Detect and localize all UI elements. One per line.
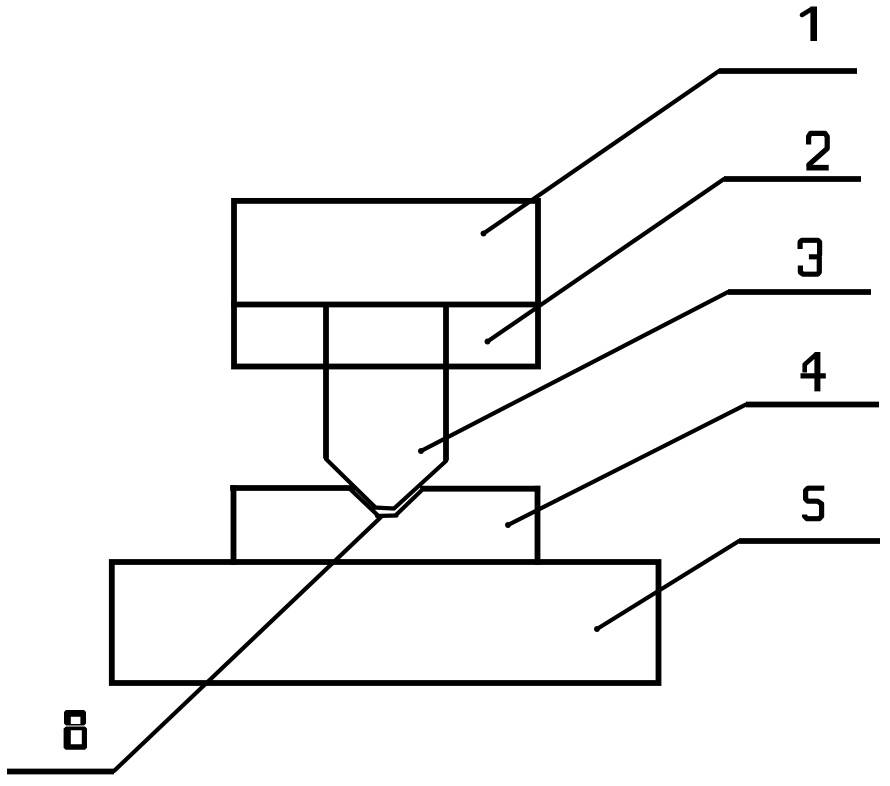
label bar 1	[719, 68, 857, 74]
leader end dot 3	[418, 448, 424, 454]
wire line 8 lower segment	[114, 517, 381, 771]
digit 4	[801, 352, 826, 391]
nozzle orifice bar	[374, 508, 394, 509]
label bar 5	[739, 538, 880, 544]
leader line 3	[421, 292, 728, 451]
digit 1	[802, 7, 814, 42]
leader line 2	[488, 179, 725, 342]
leader end dot 1	[481, 231, 487, 237]
rect 5	[112, 562, 659, 683]
notch bottom bar	[377, 513, 397, 518]
rect 4 left edge	[231, 488, 237, 562]
digit 2	[809, 133, 828, 166]
leader line 5	[597, 541, 739, 629]
head block outer rectangle (components 1 and 2)	[234, 201, 538, 367]
row2 right divider / nozzle right wall	[443, 305, 449, 461]
digit 8	[64, 710, 87, 750]
nozzle right slant	[394, 461, 446, 509]
rect 4 right edge	[535, 489, 541, 562]
wire line 8 upper segment	[396, 489, 423, 515]
digit 5	[805, 488, 825, 519]
leader line 1	[484, 71, 720, 234]
rect 4 top edge left segment	[233, 485, 352, 491]
row2 left divider / nozzle left wall	[323, 305, 329, 459]
leader end dot 4	[505, 522, 511, 528]
label bar 3	[728, 289, 871, 295]
leader end dot 2	[485, 339, 491, 345]
leader line 4	[508, 405, 746, 526]
label bar 4	[746, 402, 879, 408]
notch left slant	[350, 489, 379, 517]
label bar 2	[724, 176, 861, 182]
divider between 1 and 2	[234, 302, 538, 308]
leader end dot 5	[594, 626, 600, 632]
nozzle left slant	[326, 459, 376, 508]
rect 4 top edge right segment	[423, 486, 538, 492]
label bar 8	[7, 769, 114, 775]
digit 3	[800, 240, 820, 256]
